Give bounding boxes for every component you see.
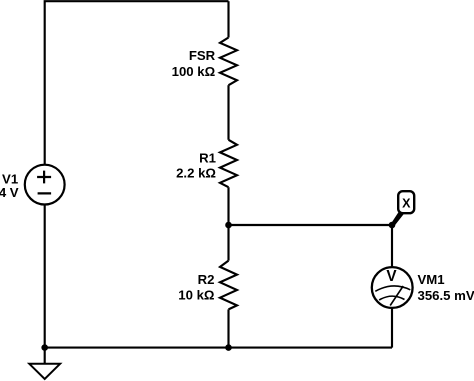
svg-text:X: X [402,197,411,211]
voltmeter VM1 [372,267,413,308]
junction dot bottom-middle [225,344,232,351]
voltage source V1 [25,165,65,205]
wire R2 to bottom [227,309,229,347]
wire V1 bottom lead [44,204,46,347]
wire X node down to voltmeter [391,225,393,267]
resistor FSR [220,38,237,86]
svg-text:4 V: 4 V [0,185,19,200]
junction dot X node [389,222,396,229]
node X box [398,191,414,213]
resistor R2 [220,261,237,310]
junction dot bottom-left [41,344,48,351]
svg-text:FSR: FSR [189,48,216,63]
svg-text:356.5 mV: 356.5 mV [418,288,474,303]
wire voltmeter to bottom [391,308,393,348]
svg-text:10 kΩ: 10 kΩ [178,288,215,303]
node X flag pointer [391,212,403,227]
svg-text:100 kΩ: 100 kΩ [172,64,216,79]
wire middle horizontal node to X [229,224,393,226]
ground stub [44,348,46,364]
wire bottom horizontal [45,347,392,349]
svg-text:R2: R2 [198,272,215,287]
svg-text:V: V [386,268,397,285]
svg-text:VM1: VM1 [418,272,445,287]
junction dot middle node [225,222,232,229]
resistor R1 [220,140,237,187]
svg-text:2.2 kΩ: 2.2 kΩ [176,165,216,180]
wire top-left vertical (V1 top lead) [45,1,229,165]
ground [29,364,60,379]
wire top to FSR [227,1,229,37]
svg-text:R1: R1 [199,150,216,165]
wire FSR to R1 [227,85,229,140]
wire R1 to R2 (through node) [227,187,229,260]
